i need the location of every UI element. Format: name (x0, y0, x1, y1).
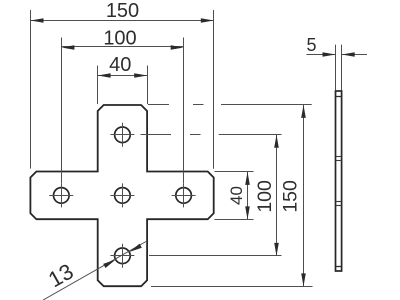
svg-text:100: 100 (254, 180, 276, 213)
hole bottom (115, 248, 131, 264)
dim line 100 top (61, 46, 183, 48)
side view chamfer line top (336, 96, 342, 98)
dim line 100 right (276, 135, 278, 256)
crosshair hole bottom (110, 244, 134, 268)
dim line 150 top (30, 20, 213, 22)
ext arm top y=171.5 (215, 171, 254, 173)
ext right edge x=213.7 (213, 10, 215, 169)
crosshair hole right (172, 183, 196, 207)
hole center (115, 188, 131, 204)
center line hole top y=134.5 (broken) (141, 134, 172, 136)
svg-text:40: 40 (109, 54, 131, 76)
svg-text:150: 150 (106, 0, 139, 22)
arrows right dims (245, 105, 306, 287)
dim line 150 right (303, 105, 305, 286)
hole right (176, 188, 192, 204)
ext left hole x=61.3 (61, 38, 63, 184)
right side extension lines (141, 105, 313, 287)
svg-text:150: 150 (280, 180, 302, 213)
side view chamfer line bottom (336, 266, 342, 268)
arrows dim 5 (323, 52, 355, 57)
ext plate top y=105 (broken) (148, 104, 169, 106)
crosshair hole left (49, 183, 73, 207)
leader line 13 (43, 242, 146, 300)
ext plate bottom y=286.3 (151, 286, 313, 288)
svg-text:100: 100 (103, 28, 136, 50)
ext lines dim 5 (336, 45, 342, 91)
dim line 40 top (98, 75, 147, 77)
dim line 40 right (247, 172, 249, 219)
hole left (54, 188, 70, 204)
plate outline (cross shape, front view) (30, 105, 213, 286)
dim line 5 right segment (342, 54, 367, 56)
svg-text:40: 40 (227, 186, 246, 205)
hole top (115, 127, 131, 143)
ext left edge x=30.4 (30, 10, 32, 169)
ext arm left x=97.7 (97, 66, 99, 105)
leader arrows 13 (103, 244, 142, 268)
extension lines top dims (31, 10, 214, 183)
side view body (336, 91, 342, 271)
arrows top dims (31, 18, 214, 78)
svg-text:5: 5 (306, 35, 316, 55)
ext hole bottom y=255.8 (149, 255, 282, 257)
ext arm right x=147.1 (147, 66, 149, 105)
dim line 5 left segment (307, 54, 336, 56)
ext arm bottom y=219.2 (215, 219, 254, 221)
ext right hole x=183.6 (183, 38, 185, 184)
side view arm edge lines lower pair (336, 201, 342, 203)
crosshair hole top (110, 123, 134, 147)
side view arm edge lines upper pair (336, 156, 342, 158)
crosshair hole center (110, 183, 134, 207)
